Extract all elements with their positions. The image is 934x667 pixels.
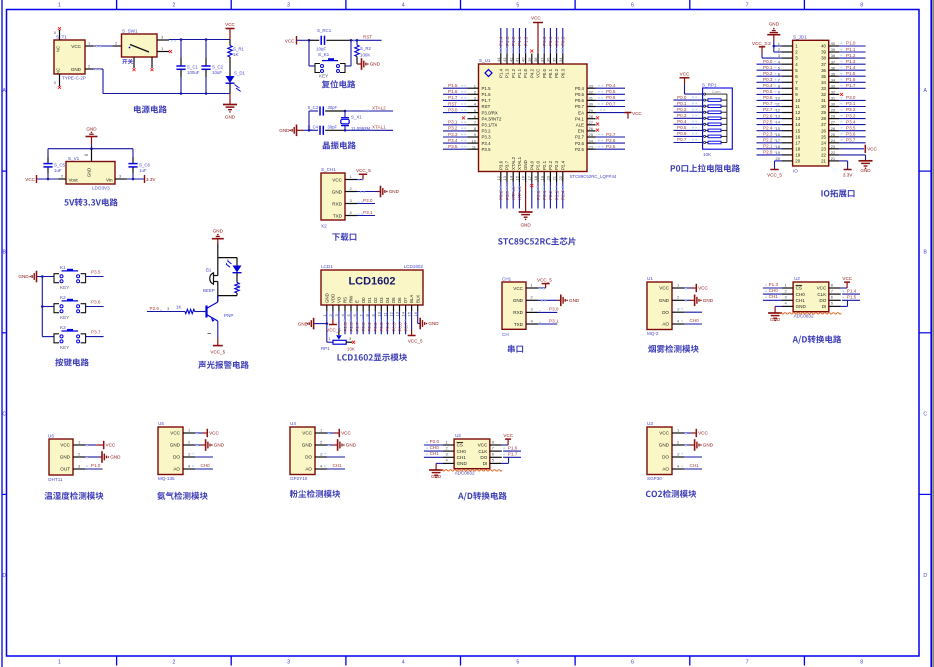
svg-text:10: 10 [795, 98, 800, 103]
svg-text:BLK: BLK [415, 295, 420, 303]
svg-text:U2: U2 [455, 433, 461, 438]
svg-text:30pF: 30pF [328, 105, 338, 110]
wire P2.7 (JD1 pin 12) [757, 112, 783, 114]
svg-text:S_T1: S_T1 [56, 35, 67, 40]
svg-text:27: 27 [831, 120, 836, 125]
svg-text:30: 30 [821, 104, 826, 109]
wire trunk [41, 277, 43, 337]
wire P1.5 (JD1 pin 35) [839, 75, 865, 77]
svg-text:P2.5: P2.5 [343, 322, 348, 332]
svg-text:7: 7 [746, 660, 749, 666]
svg-text:32: 32 [589, 90, 594, 95]
VCC_5 power symbol (BLA) [411, 311, 413, 330]
svg-text:P1.0: P1.0 [523, 68, 528, 78]
svg-text:P0.7: P0.7 [403, 322, 408, 332]
svg-text:VCC: VCC [680, 72, 690, 77]
junction [41, 275, 44, 278]
svg-text:17: 17 [527, 175, 532, 180]
svg-text:10: 10 [376, 311, 381, 316]
capacitor S_C3 30pF [309, 110, 318, 112]
title STC89C52RC主芯片 [498, 237, 575, 245]
svg-text:3: 3 [287, 2, 290, 8]
svg-text:15: 15 [795, 128, 800, 133]
svg-text:21: 21 [552, 175, 557, 180]
svg-text:P3.5: P3.5 [91, 269, 101, 274]
svg-text:8: 8 [860, 2, 863, 8]
svg-text:P1.6: P1.6 [846, 77, 856, 82]
svg-text:P0.6: P0.6 [677, 131, 687, 136]
svg-text:DO: DO [480, 455, 487, 460]
svg-text:P3.2: P3.2 [448, 126, 458, 131]
svg-text:12: 12 [496, 175, 501, 180]
svg-text:GND: GND [213, 229, 224, 234]
svg-text:29: 29 [589, 108, 594, 113]
svg-text:KEY: KEY [319, 74, 328, 79]
svg-text:P0.2: P0.2 [554, 36, 559, 46]
svg-text:TXD: TXD [514, 322, 524, 327]
svg-text:P0.4: P0.4 [385, 322, 390, 332]
resistor S_R1 1K [229, 40, 231, 46]
resistor 1K (base) [185, 309, 195, 313]
svg-text:41: 41 [515, 57, 520, 62]
svg-text:P4.0: P4.0 [529, 160, 534, 170]
svg-text:C: C [923, 411, 927, 417]
wire P0.7 (JD1 pin 11) [757, 106, 783, 108]
wire branch K3 [42, 336, 54, 338]
svg-text:24: 24 [821, 140, 826, 145]
JD1 left pin 17 [782, 142, 793, 144]
JD1 right pin 38 [829, 57, 840, 59]
svg-text:P0.5: P0.5 [606, 89, 616, 94]
pin 5 wire [829, 305, 841, 307]
pin 3 wire CH1 [782, 299, 793, 301]
svg-text:16: 16 [776, 132, 781, 137]
wire P3.6 (JD1 pin 25) [839, 136, 865, 138]
JD1 right pin 31 [829, 99, 840, 101]
VCC power symbol (EA) [627, 113, 629, 119]
GND power symbol [229, 94, 231, 105]
RP1 internal bus [726, 94, 728, 142]
svg-text:P0.0: P0.0 [542, 36, 547, 46]
svg-text:VCC: VCC [817, 286, 827, 291]
svg-text:AO: AO [173, 467, 180, 472]
title A/D转换电路 [793, 335, 842, 344]
pin 3 DO wire [315, 456, 327, 458]
title LCD1602显示模块 [337, 353, 407, 361]
header S_JD1 [793, 40, 829, 166]
JD1 right pin 21 [829, 160, 840, 162]
svg-text:P0.5: P0.5 [575, 92, 585, 97]
svg-text:33: 33 [589, 83, 594, 88]
svg-text:42: 42 [508, 57, 513, 62]
JD1 left pin 7 [782, 81, 793, 83]
pin 4 wire to GND [436, 462, 443, 464]
svg-text:34: 34 [831, 77, 836, 82]
wire P1.6 (JD1 pin 34) [839, 81, 865, 83]
svg-text:P2.7: P2.7 [575, 135, 585, 140]
JD1 right pin 22 [829, 154, 840, 156]
VCC_5 power symbol (VDD) [332, 311, 334, 319]
svg-text:34: 34 [821, 80, 826, 85]
wire P2.0 (JD1 pin 19) [757, 154, 783, 156]
svg-text:GND: GND [389, 189, 400, 194]
svg-text:P1.7: P1.7 [846, 83, 856, 88]
wire P2.3 (JD1 pin 16) [757, 136, 783, 138]
RP1 resistor P0.0 [674, 99, 703, 101]
svg-text:31: 31 [821, 98, 826, 103]
S_V1 GND pin [91, 149, 93, 162]
svg-text:P3.1: P3.1 [549, 318, 559, 323]
svg-text:P1.0: P1.0 [91, 463, 101, 468]
wire P3.5 [86, 276, 104, 278]
svg-text:P3.0: P3.0 [549, 307, 559, 312]
wire RST [351, 39, 382, 41]
pin 3 wire P3.0 [526, 311, 538, 313]
svg-text:P0.0: P0.0 [542, 68, 547, 78]
svg-text:EN: EN [578, 129, 584, 134]
svg-text:P1.0: P1.0 [523, 36, 528, 46]
svg-text:ADC0832: ADC0832 [794, 314, 814, 319]
svg-text:P2.3: P2.3 [763, 131, 773, 136]
svg-text:S_R2: S_R2 [360, 46, 372, 51]
RP1 common pin row [685, 93, 703, 95]
svg-text:12: 12 [776, 108, 781, 113]
svg-text:ALE: ALE [576, 123, 584, 128]
svg-text:CH1: CH1 [769, 294, 779, 299]
wire P1.0 (JD1 pin 40) [839, 45, 865, 47]
junction [356, 39, 359, 42]
svg-text:43: 43 [502, 57, 507, 62]
junction [350, 39, 353, 42]
svg-text:SGP30: SGP30 [647, 476, 662, 481]
svg-text:XTAL1: XTAL1 [517, 156, 522, 170]
svg-text:CLK: CLK [478, 449, 488, 454]
JD1 right pin 23 [829, 148, 840, 150]
junction [308, 39, 311, 42]
SW1 bottom pin b [151, 57, 153, 68]
svg-text:16: 16 [795, 134, 800, 139]
svg-text:P1.7: P1.7 [482, 98, 492, 103]
svg-text:28: 28 [831, 114, 836, 119]
pin 6 wire P1.5 [829, 299, 841, 301]
JD1 right pin 26 [829, 130, 840, 132]
svg-text:P3.5: P3.5 [482, 147, 492, 152]
VCC net tick [695, 284, 697, 292]
title CO2检测模块 [646, 490, 696, 498]
SW1 pin 3 wire to VCC rail [157, 39, 169, 41]
pin 7 wire P1.6 [490, 450, 502, 452]
GND power symbol (chip) [525, 182, 527, 212]
sensor U1 MQ-2 [647, 282, 672, 330]
junction [344, 110, 347, 113]
GND power symbol (right) [859, 160, 873, 162]
svg-text:GND: GND [513, 298, 524, 303]
junction [344, 129, 347, 132]
svg-text:VCC: VCC [531, 16, 541, 21]
resistor S_R2 100K [356, 40, 358, 45]
svg-text:Vout: Vout [69, 178, 79, 183]
svg-text:GND: GND [770, 317, 781, 322]
VCC net tick [206, 429, 208, 437]
ADC0832 label with squiggle [441, 470, 503, 472]
svg-text:28: 28 [589, 114, 594, 119]
svg-text:P2.7: P2.7 [355, 322, 360, 332]
svg-text:D2: D2 [373, 297, 378, 303]
svg-text:GND: GND [703, 443, 714, 448]
svg-text:P3.4: P3.4 [846, 119, 856, 124]
wire emitter [217, 321, 219, 338]
svg-text:P1.3: P1.3 [505, 36, 510, 46]
svg-text:34: 34 [558, 57, 563, 62]
svg-text:10: 10 [776, 96, 781, 101]
svg-text:CH0: CH0 [201, 463, 211, 468]
svg-text:17: 17 [795, 140, 800, 145]
wire top rail [48, 148, 133, 150]
svg-text:GND: GND [431, 474, 442, 479]
svg-text:DI: DI [483, 461, 488, 466]
svg-text:P0.5: P0.5 [763, 89, 773, 94]
JD1 left pin 6 [782, 75, 793, 77]
svg-text:P3.6: P3.6 [91, 299, 101, 304]
svg-text:VO: VO [337, 296, 342, 303]
JD1 right pin 30 [829, 106, 840, 108]
svg-text:B1: B1 [206, 268, 212, 273]
svg-text:GND: GND [659, 298, 670, 303]
svg-text:VCC: VCC [25, 177, 35, 182]
svg-text:26: 26 [589, 126, 594, 131]
pin 4 wire to GND [775, 305, 782, 307]
svg-text:37: 37 [539, 57, 544, 62]
svg-text:16: 16 [521, 175, 526, 180]
wire VCC_5 (JD1 pin 20) [775, 160, 783, 162]
no-ERC marker [151, 68, 154, 71]
sensor U3 SGP30 [647, 427, 672, 475]
svg-text:CH0: CH0 [430, 445, 440, 450]
svg-text:MQ-2: MQ-2 [647, 331, 659, 336]
svg-text:2: 2 [172, 660, 175, 666]
svg-text:8: 8 [860, 660, 863, 666]
svg-text:S_U1: S_U1 [479, 58, 491, 63]
svg-text:P2.1: P2.1 [542, 160, 547, 170]
svg-text:P3.1/TX: P3.1/TX [482, 123, 498, 128]
svg-text:CS: CS [796, 286, 802, 291]
JD1 right pin 35 [829, 75, 840, 77]
svg-text:GND: GND [796, 304, 807, 309]
svg-text:P3.7: P3.7 [505, 190, 510, 200]
svg-text:P2.0: P2.0 [536, 160, 541, 170]
svg-text:VCC_5: VCC_5 [210, 350, 225, 355]
wire left drop [308, 40, 310, 66]
RP1 resistor P0.6 [674, 135, 703, 137]
svg-text:25: 25 [821, 134, 826, 139]
svg-text:GND: GND [370, 62, 381, 67]
svg-text:P1.3: P1.3 [846, 59, 856, 64]
svg-text:D7: D7 [403, 297, 408, 303]
JD1 left pin 14 [782, 124, 793, 126]
svg-text:16: 16 [413, 311, 418, 316]
pin 2 GND wire [73, 456, 85, 458]
svg-text:GND: GND [18, 274, 29, 279]
wire P3.3 (JD1 pin 28) [839, 118, 865, 120]
svg-text:P2.4: P2.4 [560, 160, 565, 170]
wire P2.6 (JD1 pin 13) [757, 118, 783, 120]
svg-text:19: 19 [795, 153, 800, 158]
svg-text:P0.7: P0.7 [575, 104, 585, 109]
svg-text:GND: GND [87, 168, 92, 177]
pin 3 wire CH1 [443, 456, 454, 458]
svg-text:P0.6: P0.6 [763, 95, 773, 100]
ADC0832 label with squiggle [780, 313, 842, 315]
no-ERC marker [133, 68, 136, 71]
svg-text:20: 20 [776, 156, 781, 161]
svg-text:P3.1: P3.1 [363, 210, 373, 215]
svg-text:10K: 10K [347, 347, 355, 352]
wire P2.2 (JD1 pin 17) [757, 142, 783, 144]
svg-text:S_K1: S_K1 [318, 52, 330, 57]
JD1 right pin 27 [829, 124, 840, 126]
pin 1 wire [526, 287, 538, 289]
svg-text:CH1: CH1 [430, 451, 440, 456]
svg-text:P2.0: P2.0 [430, 439, 440, 444]
JD1 left pin 12 [782, 112, 793, 114]
svg-text:1: 1 [58, 660, 61, 666]
JD1 left pin 10 [782, 99, 793, 101]
svg-text:S_X1: S_X1 [351, 115, 362, 120]
wire right drop [350, 40, 352, 66]
svg-text:1uF: 1uF [54, 168, 62, 173]
junction [180, 92, 183, 95]
svg-text:LCD1: LCD1 [321, 264, 333, 269]
svg-text:P2.0: P2.0 [536, 190, 541, 200]
pin 4 AO wire CH1 [315, 468, 327, 470]
svg-text:DO: DO [819, 298, 826, 303]
svg-text:VCC_3.3: VCC_3.3 [752, 41, 771, 46]
title 声光报警电路 [198, 361, 249, 369]
svg-text:D: D [923, 573, 927, 579]
svg-text:VCC_5: VCC_5 [356, 168, 371, 173]
svg-text:EA: EA [578, 110, 584, 115]
svg-text:P3.5: P3.5 [448, 144, 458, 149]
wire bottom of branches [218, 295, 237, 297]
header S_CH1 [321, 173, 345, 220]
switch S_SW1 [122, 34, 158, 57]
wire left vertical [308, 111, 310, 130]
svg-text:P3.3: P3.3 [482, 135, 492, 140]
svg-text:P2.5: P2.5 [763, 119, 773, 124]
title 串口 [508, 345, 523, 353]
svg-text:P0.7: P0.7 [606, 101, 616, 106]
title 复位电路 [322, 80, 356, 88]
JD1 right pin 25 [829, 136, 840, 138]
no-ERC marker [352, 341, 355, 344]
wire P2.5 (JD1 pin 14) [757, 124, 783, 126]
sensor U5 MQ-135 [158, 427, 183, 475]
svg-text:P1.2: P1.2 [846, 53, 856, 58]
svg-text:VCC: VCC [503, 433, 513, 438]
svg-text:VCC_5: VCC_5 [537, 277, 552, 282]
svg-text:P0.1: P0.1 [548, 68, 553, 78]
svg-text:14: 14 [795, 122, 800, 127]
svg-text:GND: GND [86, 127, 97, 132]
pin 2 wire [345, 191, 357, 193]
svg-text:D1: D1 [367, 297, 372, 303]
wire XTAL2 [345, 110, 393, 112]
svg-text:P3.3: P3.3 [448, 132, 458, 137]
svg-text:P1.4: P1.4 [499, 36, 504, 46]
svg-text:100uF: 100uF [187, 70, 200, 75]
svg-text:15: 15 [407, 311, 412, 316]
svg-text:38: 38 [821, 56, 826, 61]
svg-text:P2.4: P2.4 [763, 125, 773, 130]
wire P3.7 [86, 336, 104, 338]
wire to LED branch [218, 257, 237, 259]
junction [308, 129, 311, 132]
svg-text:P1.0: P1.0 [846, 41, 856, 46]
svg-text:4: 4 [402, 2, 405, 8]
svg-text:DO: DO [305, 455, 312, 460]
pin 4 wire [782, 305, 793, 307]
svg-text:37: 37 [821, 62, 826, 67]
JD1 left pin 2 [782, 51, 793, 53]
svg-text:25: 25 [589, 132, 594, 137]
svg-text:C: C [2, 411, 6, 417]
title 晶振电路 [323, 141, 356, 149]
svg-text:24: 24 [589, 138, 594, 143]
JD1 right pin 28 [829, 118, 840, 120]
svg-text:P2.1: P2.1 [763, 144, 773, 149]
JD1 right pin 29 [829, 112, 840, 114]
svg-text:P2.1: P2.1 [542, 190, 547, 200]
ground (sideways) [560, 295, 562, 307]
svg-text:VCC: VCC [698, 286, 708, 291]
svg-text:Vin: Vin [106, 178, 113, 183]
svg-text:DO: DO [662, 455, 669, 460]
svg-text:VCC: VCC [513, 286, 523, 291]
sensor U4 GP2Y10 [290, 427, 315, 475]
svg-text:P1.1: P1.1 [517, 36, 522, 46]
pin 1 wire [345, 179, 357, 181]
svg-text:21: 21 [821, 159, 826, 164]
wire P0.4 (JD1 pin 8) [757, 87, 783, 89]
svg-text:35: 35 [552, 57, 557, 62]
GND power symbol [768, 312, 782, 314]
wire P0.2 (JD1 pin 6) [757, 75, 783, 77]
wire P3.1 (JD1 pin 30) [839, 106, 865, 108]
svg-text:30: 30 [831, 102, 836, 107]
svg-text:P2.2: P2.2 [548, 160, 553, 170]
svg-text:VCC: VCC [536, 69, 541, 78]
svg-text:100K: 100K [360, 53, 370, 58]
pin 5 wire [490, 462, 502, 464]
svg-text:GND: GND [457, 461, 468, 466]
MCU S_U1 STC89C52RC [479, 64, 588, 172]
pin 1 wire P1.3 [782, 287, 793, 289]
svg-text:P3.0: P3.0 [846, 95, 856, 100]
svg-text:S_V1: S_V1 [68, 156, 80, 161]
svg-text:P1.3: P1.3 [769, 282, 779, 287]
JD1 right pin 34 [829, 81, 840, 83]
svg-text:DO: DO [662, 310, 669, 315]
svg-text:CH0: CH0 [769, 288, 779, 293]
no-ERC marker [58, 86, 61, 89]
pin 3 DO wire [672, 456, 684, 458]
svg-text:13: 13 [395, 311, 400, 316]
svg-text:RST: RST [363, 34, 372, 39]
svg-text:GND: GND [428, 321, 439, 326]
svg-text:11.0592M: 11.0592M [351, 126, 371, 131]
svg-text:P1.6: P1.6 [448, 89, 458, 94]
svg-text:VCC: VCC [170, 431, 180, 436]
